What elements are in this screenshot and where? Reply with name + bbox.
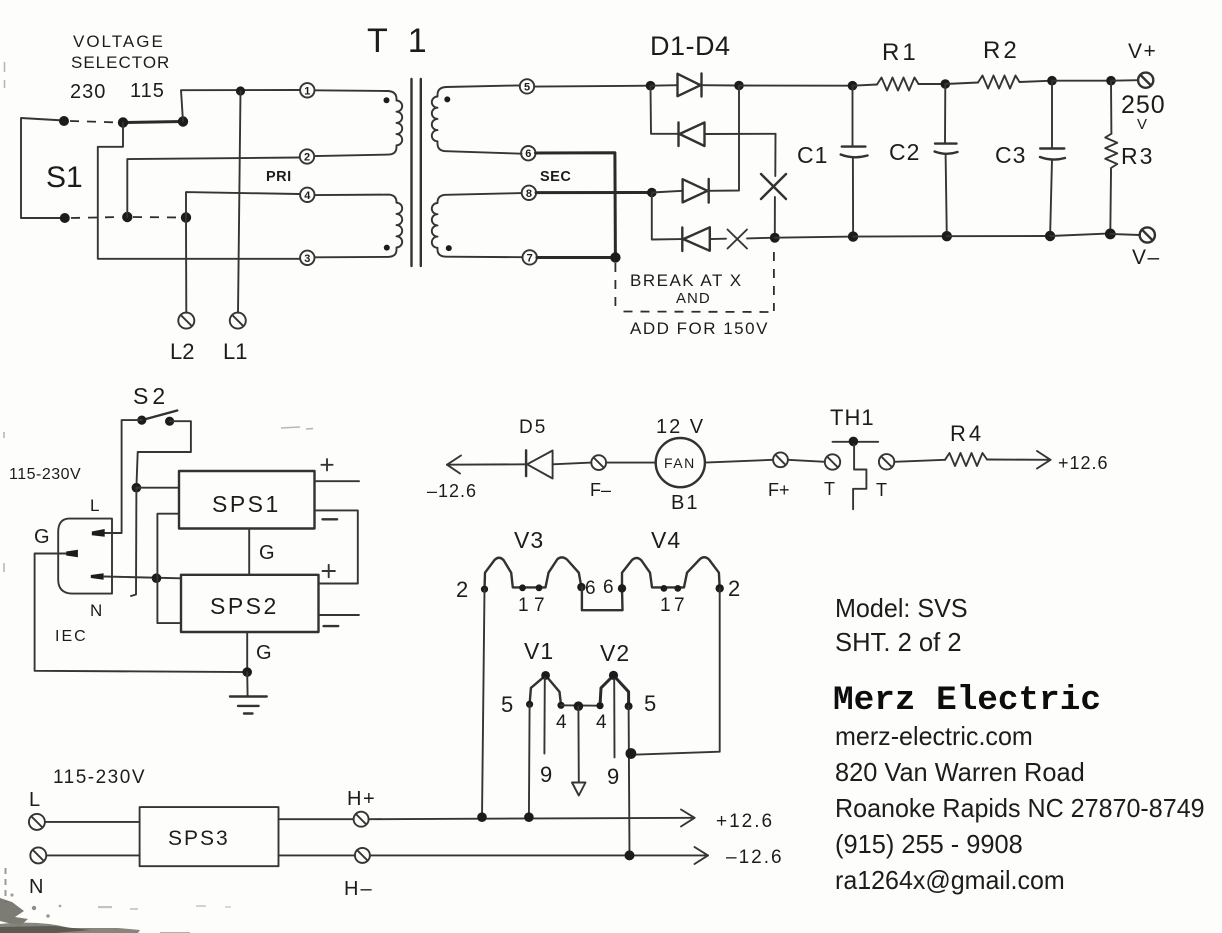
node N junction <box>152 573 162 583</box>
wire SPS1 G to SPS2 <box>248 529 250 575</box>
svg-text:C3: C3 <box>995 142 1026 168</box>
svg-text:V3: V3 <box>514 527 544 553</box>
svg-text:–12.6: –12.6 <box>427 481 477 501</box>
label - (SPS1) <box>323 518 338 520</box>
transformer T1 core <box>412 79 421 266</box>
node C3 bottom <box>1045 231 1055 241</box>
svg-text:BREAK AT X: BREAK AT X <box>630 271 743 290</box>
wire L2 vertical <box>185 218 187 313</box>
arrow -12.6 (fan) <box>447 456 526 474</box>
fan B1 motor circle <box>656 438 705 487</box>
node C1 bottom <box>848 231 858 241</box>
pin 3 <box>300 251 314 265</box>
svg-text:9: 9 <box>607 764 619 789</box>
wire SPS1 plus output <box>315 480 360 482</box>
svg-text:(915) 255 - 9908: (915) 255 - 9908 <box>835 829 1023 859</box>
node bridge top left <box>646 81 656 91</box>
svg-text:5: 5 <box>524 81 530 93</box>
svg-text:D5: D5 <box>519 417 547 438</box>
svg-text:SELECTOR: SELECTOR <box>71 53 170 72</box>
wire IEC N to SPS2 <box>104 577 181 579</box>
IEC pin G <box>66 550 78 558</box>
IEC pin N <box>91 573 104 579</box>
wire F- to fan <box>606 462 656 464</box>
dashed box left side <box>614 263 616 314</box>
svg-text:115: 115 <box>130 80 165 102</box>
svg-text:N: N <box>90 601 102 620</box>
wire center tap down to chassis arrow <box>577 706 579 782</box>
tube V3 pin dots <box>481 583 586 593</box>
wire N to SPS3 <box>46 854 139 856</box>
box SPS1 <box>179 471 315 529</box>
wire SPS3 to H- <box>279 854 355 856</box>
svg-text:V1: V1 <box>524 638 554 664</box>
node V2 pin5 on -12.6 rail <box>625 850 635 860</box>
svg-text:L: L <box>29 789 40 811</box>
svg-text:C1: C1 <box>797 142 828 168</box>
wire rail C3 to R3 <box>1052 80 1111 82</box>
svg-text:230: 230 <box>70 81 106 103</box>
switch S1 bottom row dashed wires <box>71 217 180 218</box>
wire V2 pin5 down to -12.6 rail <box>628 706 631 855</box>
svg-text:250: 250 <box>1121 91 1166 119</box>
svg-text:H–: H– <box>344 878 374 900</box>
pin 8 <box>522 186 536 200</box>
svg-text:S2: S2 <box>133 383 169 409</box>
switch S2 contacts and lever <box>137 411 177 426</box>
svg-text:V4: V4 <box>651 527 681 553</box>
svg-text:R1: R1 <box>882 39 919 66</box>
wire R3 top to V+ terminal <box>1111 79 1138 82</box>
pin 1 <box>300 83 314 97</box>
bottom rail C2 to C3 <box>947 235 1050 237</box>
svg-text:T: T <box>824 479 835 499</box>
IEC connector body <box>58 519 112 594</box>
label + (SPS1) <box>321 459 332 470</box>
svg-text:SHT. 2 of 2: SHT. 2 of 2 <box>835 627 962 657</box>
switch S1 contact dots top row <box>59 116 188 128</box>
box SPS3 <box>140 807 279 866</box>
svg-text:V: V <box>1137 116 1147 133</box>
thermostat TH1 <box>833 437 879 510</box>
wire SPS1 minus to SPS2 plus <box>315 510 358 583</box>
svg-text:115-230V: 115-230V <box>53 767 146 788</box>
wire feed node down (crosses N wire) <box>131 488 136 596</box>
svg-text:5: 5 <box>644 691 656 716</box>
wire V4 pin2 down and left <box>631 588 719 754</box>
tube V2 heater tent <box>596 671 632 710</box>
svg-text:Roanoke Rapids NC 27870-8749: Roanoke Rapids NC 27870-8749 <box>835 793 1205 823</box>
node C1 top <box>848 81 858 91</box>
node bottom rail left <box>770 233 780 243</box>
arrow -12.6 rail <box>695 847 709 864</box>
wire SPS3 to H+ <box>279 818 354 820</box>
svg-text:G: G <box>259 542 275 564</box>
svg-text:T1: T1 <box>367 22 447 60</box>
wire fan to F+ <box>705 460 773 463</box>
svg-text:ADD FOR 150V: ADD FOR 150V <box>630 319 769 338</box>
terminal L2 <box>178 313 194 329</box>
pin 5 <box>520 79 534 93</box>
chassis arrow head <box>572 783 586 796</box>
node heater center tap <box>574 701 584 711</box>
wire top rail to C1 <box>739 85 853 87</box>
wire IEC G to ground run <box>35 554 248 673</box>
svg-text:N: N <box>29 876 43 898</box>
node D1 cathode junction <box>734 81 744 91</box>
transformer primary winding 4-3 <box>315 195 403 258</box>
svg-text:6: 6 <box>603 577 614 598</box>
svg-text:Merz Electric: Merz Electric <box>833 682 1101 720</box>
resistor R2 <box>945 76 1052 89</box>
wire pin7 jumper (thick) <box>537 256 616 259</box>
terminal H- <box>355 848 370 863</box>
wire S1 to pin1 <box>181 90 300 122</box>
pin 6 <box>521 146 535 160</box>
wire SPS1 lower input link <box>157 514 181 623</box>
terminal V- <box>1140 227 1155 242</box>
resistor R3 vertical <box>1105 81 1117 234</box>
node bridge mid left <box>647 188 657 198</box>
terminal V+ <box>1138 73 1153 88</box>
node C2 bottom <box>942 231 952 241</box>
node L1 tap on pin1 wire <box>236 86 245 95</box>
svg-text:R3: R3 <box>1121 143 1154 169</box>
box SPS2 <box>181 575 319 632</box>
transformer secondary winding 8-7 <box>432 193 522 257</box>
wire bridge left drop to D4 <box>652 193 681 240</box>
diode D1 <box>651 74 740 97</box>
svg-text:SEC: SEC <box>540 169 571 185</box>
node ground junction <box>242 667 252 677</box>
dashed box bottom <box>624 311 772 314</box>
tube V1 heater tent <box>526 671 565 709</box>
node V3 pin2 on +12.6 rail <box>477 812 487 822</box>
pin 7 <box>523 250 537 264</box>
label + (SPS2) <box>323 565 335 577</box>
node V1 pin5 on +12.6 rail <box>524 812 534 822</box>
svg-text:AND: AND <box>676 290 711 307</box>
svg-text:7: 7 <box>534 595 545 616</box>
tube V4 pin dots <box>618 584 724 592</box>
wire SPS2 minus output <box>319 614 359 616</box>
svg-text:5: 5 <box>501 692 513 717</box>
node R3 top <box>1106 76 1116 86</box>
arrow +12.6 rail <box>681 810 695 827</box>
svg-text:2: 2 <box>456 577 468 602</box>
svg-text:1: 1 <box>518 595 529 616</box>
svg-text:6: 6 <box>525 148 531 160</box>
terminal L (bottom) <box>29 814 45 830</box>
wire SPS2 G to ground <box>246 632 248 672</box>
wire V1 pin4 to V2 pin4 <box>561 704 600 706</box>
wire S2 right to SPS feed <box>136 421 191 488</box>
wire S1 bottom right to pin4 <box>186 192 300 217</box>
node C3 top <box>1047 76 1057 86</box>
arrow +12.6 (fan) <box>1037 451 1051 469</box>
diode D5 <box>526 450 591 478</box>
svg-text:4: 4 <box>556 712 567 733</box>
svg-text:ra1264x@gmail.com: ra1264x@gmail.com <box>835 865 1065 895</box>
wire -12.6 rail <box>370 854 708 856</box>
switch S1 top row thick wire <box>123 122 183 123</box>
svg-text:FAN: FAN <box>664 455 696 471</box>
pin 4 <box>300 188 314 202</box>
ground symbol <box>230 672 267 713</box>
wire V3 pin2 down to +12.6 rail <box>482 589 485 817</box>
svg-text:V+: V+ <box>1128 40 1157 63</box>
svg-text:+12.6: +12.6 <box>1058 453 1109 473</box>
wire V2 pin9 stub <box>613 679 615 757</box>
transformer primary winding 1-2 phase dot <box>384 97 390 103</box>
svg-text:F+: F+ <box>768 480 790 500</box>
label 250 V <box>1121 91 1166 133</box>
svg-text:R2: R2 <box>983 37 1020 64</box>
terminal N (bottom) <box>30 847 46 863</box>
svg-text:merz-electric.com: merz-electric.com <box>835 721 1033 751</box>
svg-text:4: 4 <box>304 190 311 202</box>
svg-text:T: T <box>876 480 887 500</box>
svg-text:6: 6 <box>585 578 596 599</box>
wire D2 output down to X break <box>774 134 776 176</box>
svg-text:7: 7 <box>527 252 533 264</box>
node V4 link on V2 pin5 wire <box>626 748 637 759</box>
wire R3 bottom to V- terminal <box>1110 234 1139 235</box>
tube V4 heater <box>622 557 720 588</box>
svg-text:TH1: TH1 <box>830 405 875 430</box>
wire L1 vertical <box>238 91 241 313</box>
terminal F- <box>591 455 606 470</box>
svg-text:1: 1 <box>304 85 310 97</box>
tube V3 heater <box>485 557 582 589</box>
node R3 bottom <box>1105 229 1116 240</box>
node pin6-7 junction <box>610 252 620 262</box>
terminal T right <box>879 454 894 469</box>
wire pin6 jumper (thick) <box>536 153 616 258</box>
svg-text:2: 2 <box>728 576 740 601</box>
transformer primary winding 4-3 phase dot <box>384 245 390 251</box>
switch S1 contact dots bottom row <box>60 212 191 223</box>
svg-text:7: 7 <box>674 595 685 616</box>
svg-text:B1: B1 <box>671 492 699 514</box>
svg-text:C2: C2 <box>889 139 920 165</box>
wire feed node into SPS1 <box>136 487 179 489</box>
svg-text:V2: V2 <box>600 640 630 666</box>
svg-text:G: G <box>34 526 50 548</box>
svg-text:SPS1: SPS1 <box>212 491 281 517</box>
svg-text:G: G <box>256 642 272 664</box>
svg-text:L1: L1 <box>223 339 247 364</box>
svg-text:–12.6: –12.6 <box>726 847 784 868</box>
bottom rail to C1 <box>775 237 853 238</box>
transformer secondary winding 5-6 phase dot <box>444 96 450 102</box>
label - (SPS2) <box>324 625 339 627</box>
diode D2 <box>679 123 776 147</box>
terminal T left <box>825 454 840 469</box>
transformer secondary winding 8-7 phase dot <box>446 245 452 251</box>
svg-text:L2: L2 <box>170 339 194 364</box>
svg-text:4: 4 <box>596 712 607 733</box>
svg-text:2: 2 <box>304 152 310 164</box>
svg-text:PRI: PRI <box>266 169 292 185</box>
svg-text:F–: F– <box>590 480 611 500</box>
svg-text:V–: V– <box>1132 246 1161 269</box>
bottom rail C1 to C2 <box>853 235 947 237</box>
resistor R4 <box>894 453 1050 466</box>
wire X to bottom rail node <box>747 237 775 240</box>
terminal L1 <box>230 313 246 329</box>
wire +12.6 rail <box>369 818 695 819</box>
switch S1 left bracket wire <box>21 118 65 218</box>
wire V1 pin9 stub <box>543 678 545 754</box>
terminal H+ <box>354 812 369 827</box>
diode D4 <box>682 227 726 251</box>
bottom rail C3 to R3 <box>1050 233 1110 236</box>
svg-text:1: 1 <box>660 595 671 616</box>
dashed box right side <box>773 252 775 311</box>
wire bridge left drop to D2 <box>651 86 678 134</box>
svg-text:IEC: IEC <box>55 628 88 645</box>
X break mark right column <box>761 174 786 199</box>
transformer secondary winding 5-6 <box>432 85 522 153</box>
svg-text:R4: R4 <box>950 421 984 446</box>
wire X break to bottom node <box>774 197 776 238</box>
wire 230 contact to pin3 <box>98 123 300 259</box>
svg-text:SPS2: SPS2 <box>210 593 279 619</box>
svg-text:S1: S1 <box>46 161 83 194</box>
wire S1 bottom middle to pin2 <box>127 158 299 218</box>
wire V3 to V4 heater link <box>582 587 623 610</box>
svg-text:L: L <box>90 496 99 515</box>
svg-text:9: 9 <box>540 762 552 787</box>
IEC pin L <box>92 529 105 537</box>
scan marks faint <box>4 62 313 572</box>
diode D3 <box>652 86 739 203</box>
wire L to SPS3 <box>45 821 140 823</box>
node C2 top <box>941 79 951 89</box>
transformer primary winding 1-2 <box>315 90 403 156</box>
label VOLTAGE SELECTOR <box>71 32 170 72</box>
svg-text:SPS3: SPS3 <box>168 827 230 850</box>
node SPS1 feed <box>132 483 142 493</box>
switch S1 top row dashed wire <box>70 121 120 123</box>
capacitor C3 <box>1040 81 1065 236</box>
pin 2 <box>300 149 314 163</box>
svg-text:Model: SVS: Model: SVS <box>835 593 968 623</box>
svg-text:820 Van Warren Road: 820 Van Warren Road <box>835 757 1085 787</box>
wire S2 left to IEC L pin <box>105 420 142 533</box>
svg-text:H+: H+ <box>347 788 376 810</box>
svg-text:12 V: 12 V <box>656 416 705 438</box>
wire pin8 to bridge (thick) <box>536 191 652 194</box>
svg-text:3: 3 <box>304 253 310 265</box>
capacitor C1 <box>841 86 868 237</box>
svg-text:115-230V: 115-230V <box>9 466 81 483</box>
svg-text:VOLTAGE: VOLTAGE <box>73 32 165 51</box>
wire V1 pin5 down to +12.6 rail <box>528 704 531 817</box>
wire F+ to T <box>788 460 825 462</box>
terminal F+ <box>773 452 788 467</box>
svg-text:8: 8 <box>526 188 532 200</box>
svg-text:D1-D4: D1-D4 <box>650 31 731 61</box>
capacitor C2 <box>935 84 958 236</box>
resistor R1 <box>853 78 946 91</box>
wire pin5 to bridge <box>534 85 650 88</box>
scan smudge bottom left <box>0 868 231 933</box>
X break mark D4 row <box>728 230 748 249</box>
svg-text:+12.6: +12.6 <box>716 811 774 832</box>
